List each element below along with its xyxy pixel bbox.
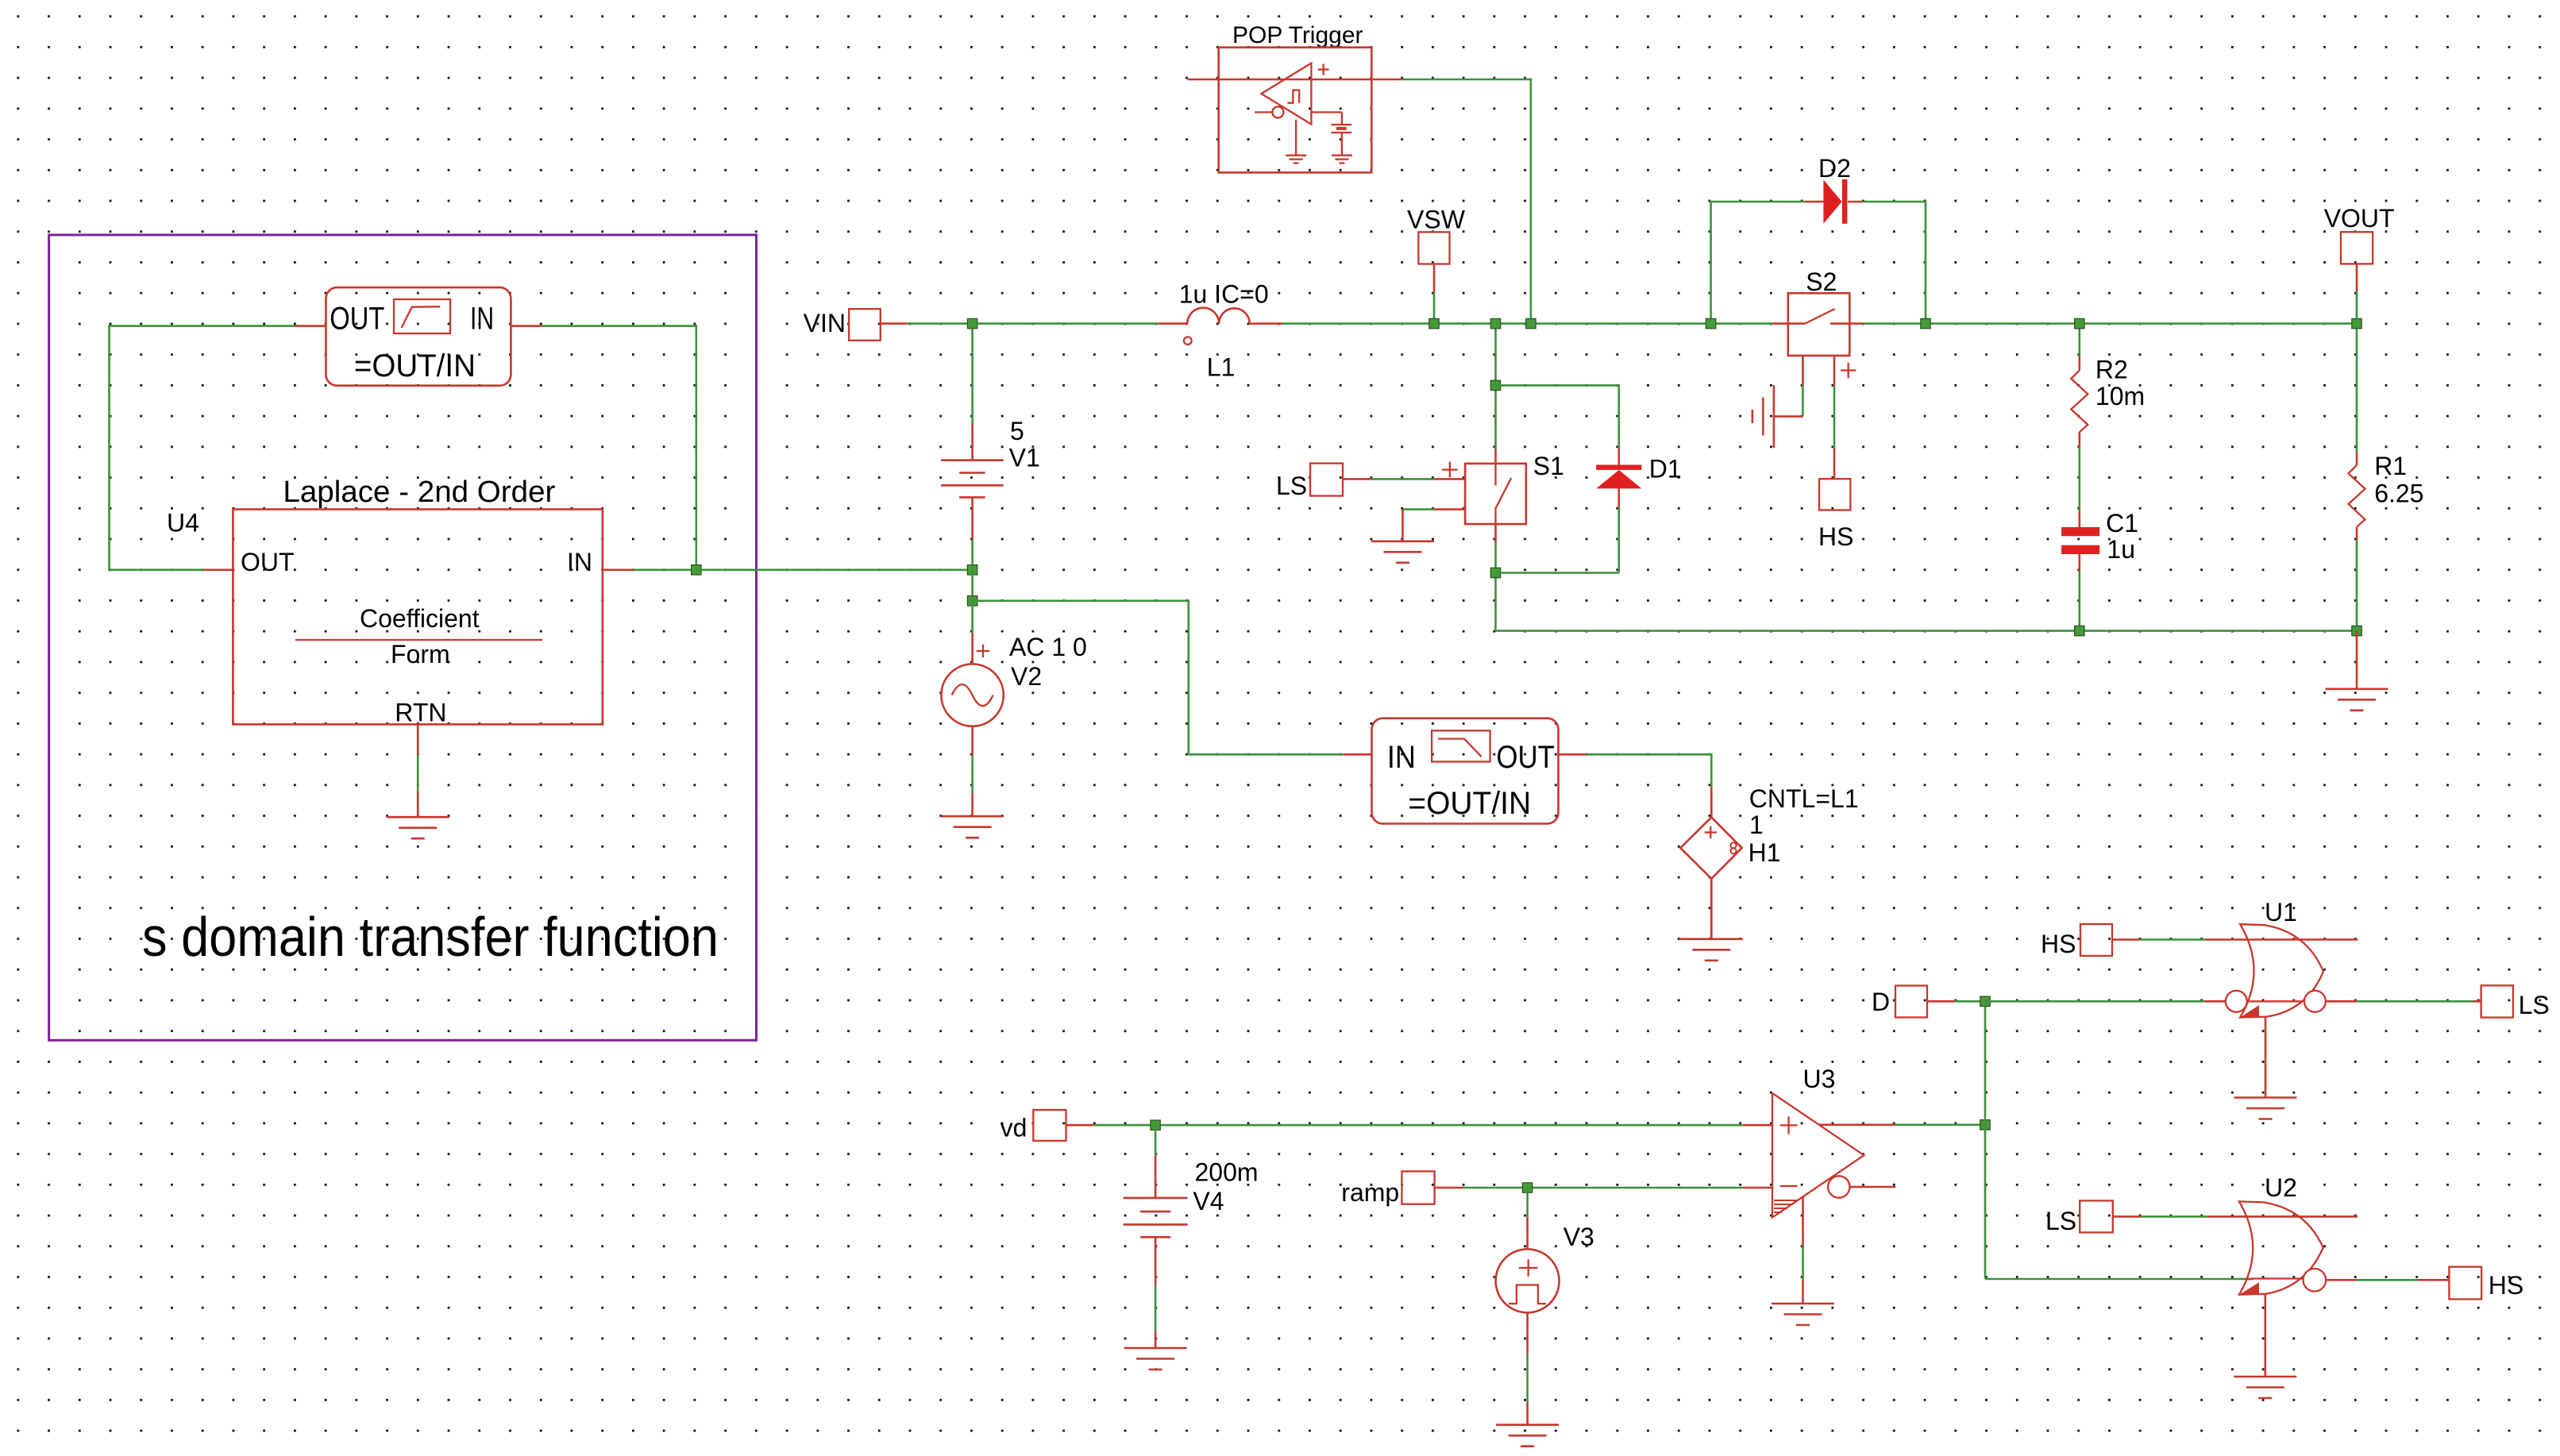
terminal LS (S1 control) (1276, 464, 1465, 500)
node: R2 top junction (2075, 318, 2084, 328)
wire: POP inverting input with bubble (1255, 106, 1283, 117)
gain block U5 (=OUT/IN upper) (326, 287, 511, 386)
svg-text:1u: 1u (2107, 535, 2135, 564)
wire: U3 output (1819, 1124, 1985, 1127)
svg-text:H1: H1 (1748, 838, 1781, 867)
comparator U3 (1772, 1065, 1895, 1218)
ground: S1 control (1371, 541, 1434, 563)
svg-text:5: 5 (1010, 417, 1024, 445)
terminal HS (U2 output) (2326, 1267, 2523, 1300)
switch S2 (1772, 268, 1863, 356)
terminal HS (S2 control) (1818, 356, 1856, 551)
terminal VOUT (2324, 204, 2395, 324)
laplace U4 box (167, 476, 603, 726)
node: V1 bottom junction (967, 565, 977, 575)
svg-text:D2: D2 (1818, 154, 1851, 183)
wire: S2 left stem to rotated ground (1774, 356, 1803, 417)
resistor R2 (2071, 324, 2145, 447)
wire: laplace RTN stem (417, 724, 419, 817)
wire: upper block IN to node (542, 325, 696, 570)
ground: output (2326, 689, 2388, 711)
source V1 battery (941, 324, 1040, 570)
node: S1 bottom junction (1490, 568, 1500, 577)
node: ramp junction (1522, 1183, 1532, 1192)
svg-text:S2: S2 (1806, 268, 1837, 296)
svg-text:D1: D1 (1649, 454, 1682, 483)
svg-text:LS: LS (2045, 1207, 2076, 1235)
svg-text:HS: HS (2489, 1271, 2523, 1300)
wire: S1 bottom stem (1494, 524, 1497, 631)
gain block U6 (=OUT/IN lower) (1372, 718, 1559, 824)
switch S1 (1442, 452, 1564, 524)
POP Trigger block (1219, 22, 1372, 173)
svg-text:VOUT: VOUT (2324, 204, 2395, 233)
node: V2 top junction (967, 596, 977, 606)
svg-text:vd: vd (1000, 1114, 1027, 1142)
svg-text:V2: V2 (1011, 662, 1042, 691)
svg-text:V1: V1 (1009, 444, 1040, 472)
svg-text:C1: C1 (2106, 509, 2138, 537)
svg-text:IN: IN (470, 302, 494, 337)
wire: U3 ground stem (1802, 1196, 1804, 1304)
inductor L1 (1158, 280, 1282, 382)
ground: V3 (1496, 1425, 1559, 1446)
wire: D to U1 lower input (1985, 1000, 2226, 1003)
wire: D node vertical (1985, 1001, 2253, 1279)
wire: bottom return bus (1496, 630, 2358, 632)
wire: feedback left vertical (108, 325, 110, 571)
svg-text:AC 1 0: AC 1 0 (1009, 633, 1087, 661)
svg-text:D: D (1872, 988, 1890, 1016)
svg-text:OUT: OUT (241, 548, 295, 576)
svg-text:s domain transfer function: s domain transfer function (142, 906, 719, 968)
wire: H1 ground stem (1710, 879, 1713, 939)
source V2 AC (941, 601, 1086, 816)
svg-text:Coefficient: Coefficient (360, 604, 480, 633)
ground: H1 (1680, 939, 1743, 961)
wire: laplace IN node to V1 bottom (696, 568, 973, 571)
svg-text:IN: IN (567, 548, 592, 576)
svg-text:1: 1 (1749, 811, 1764, 839)
ground: U2 (2234, 1377, 2296, 1398)
svg-text:=OUT/IN: =OUT/IN (1408, 786, 1531, 821)
svg-text:HS: HS (1818, 522, 1853, 551)
svg-text:ramp: ramp (1341, 1178, 1399, 1207)
svg-text:U3: U3 (1803, 1065, 1836, 1093)
node: VOUT junction (2352, 318, 2361, 328)
svg-text:RTN: RTN (395, 698, 446, 726)
purple boundary box (49, 235, 757, 1040)
wire: upper block left pin stub (295, 325, 326, 327)
svg-text:Laplace - 2nd Order: Laplace - 2nd Order (283, 476, 555, 509)
wire: ramp to U3 minus (1464, 1187, 1772, 1189)
svg-text:OUT: OUT (1496, 740, 1555, 775)
battery: POP reference (1332, 125, 1352, 156)
svg-text:V3: V3 (1563, 1223, 1594, 1251)
nor gate U1 (2205, 898, 2358, 1018)
ground: U3 (1772, 1304, 1834, 1325)
wire: U2 ground stem (2265, 1294, 2267, 1377)
node: R1 bottom junction (2352, 626, 2361, 635)
svg-text:10m: 10m (2095, 382, 2145, 410)
wire: laplace IN pin stub (603, 568, 696, 571)
svg-text:LS: LS (2519, 991, 2550, 1019)
svg-text:U2: U2 (2265, 1173, 2297, 1202)
ground: S2 (rotated) (1752, 385, 1774, 448)
svg-text:R2: R2 (2095, 355, 2128, 383)
svg-text:V4: V4 (1193, 1187, 1224, 1215)
wire: POP comparator ground stem (1295, 120, 1297, 156)
wire: POP comparator plus input line (1187, 79, 1401, 81)
terminal LS (U2 input) (2045, 1200, 2207, 1235)
svg-text:POP Trigger: POP Trigger (1232, 22, 1363, 48)
svg-text:R1: R1 (2374, 452, 2407, 480)
resistor R1 (2349, 324, 2424, 631)
capacitor C1 (2061, 447, 2138, 631)
svg-text:IN: IN (1387, 740, 1416, 775)
svg-text:OUT: OUT (330, 302, 384, 337)
ground: laplace RTN (387, 817, 449, 838)
wire: lower block OUT to H1 (1559, 753, 1712, 818)
wire: to Laplace OUT (110, 568, 233, 571)
ground: V2 (941, 816, 1004, 838)
op-amp: POP comparator (1261, 64, 1328, 125)
ground: POP comparator (1286, 156, 1306, 164)
svg-text:VIN: VIN (804, 309, 846, 337)
terminal VSW (1407, 206, 1466, 324)
terminal LS (U1 output) (2326, 985, 2550, 1019)
svg-text:6.25: 6.25 (2374, 479, 2423, 507)
node: U3 output junction (1980, 1120, 1990, 1130)
wire: vd to U3 plus (1094, 1124, 1772, 1127)
svg-text:Form: Form (391, 640, 450, 668)
svg-text:1u IC=0: 1u IC=0 (1179, 280, 1269, 309)
svg-text:U4: U4 (167, 509, 199, 537)
svg-text:LS: LS (1276, 472, 1307, 500)
source V3 pulse (1496, 1188, 1594, 1425)
wire: feedback left horizontal (110, 325, 295, 327)
wire: R1 ground stem (2356, 631, 2358, 689)
wire: V2 node to filter block IN (973, 599, 1372, 754)
ground: U1 (2234, 1098, 2297, 1119)
wire: S1 lower-left pin to ground (1403, 510, 1466, 541)
terminal VIN (804, 309, 908, 341)
wire: main bus VIN to L1 (908, 322, 1159, 325)
terminal ramp (1341, 1171, 1464, 1207)
wire: V1 bottom to V2 top (971, 570, 973, 601)
node: S1 upper junction (1490, 380, 1500, 390)
terminal HS (U1 input) (2041, 924, 2205, 958)
diode D2 (1710, 154, 1926, 324)
nor gate U2 (2207, 1173, 2358, 1295)
svg-text:=OUT/IN: =OUT/IN (354, 349, 476, 383)
wire: POP output to bus (1402, 79, 1531, 324)
node: C1 bottom junction (2075, 626, 2084, 635)
wire: upper block right pin stub (511, 325, 542, 327)
wire: main bus S2 to VOUT (1863, 322, 2357, 325)
svg-text:HS: HS (2041, 930, 2076, 958)
wire: U1 ground stem (2265, 1017, 2267, 1098)
diode D1 (1496, 384, 1682, 573)
node: bus junctions (967, 318, 1930, 328)
svg-text:U1: U1 (2265, 898, 2297, 926)
node: D junction (1980, 996, 1990, 1006)
svg-text:CNTL=L1: CNTL=L1 (1749, 784, 1859, 813)
wire: S1 top stem (1494, 324, 1497, 464)
svg-text:VSW: VSW (1407, 206, 1466, 234)
node: vd junction (1151, 1120, 1160, 1130)
source V4 battery (1124, 1125, 1259, 1348)
svg-text:S1: S1 (1533, 452, 1564, 480)
ground: POP battery (1332, 156, 1352, 164)
annotation: s domain transfer function (142, 906, 719, 968)
node: laplace IN junction (692, 565, 701, 575)
ground: V4 (1124, 1348, 1187, 1369)
wire: POP battery connection (1311, 112, 1342, 124)
svg-text:200m: 200m (1195, 1157, 1259, 1186)
svg-text:L1: L1 (1207, 353, 1236, 382)
terminal vd (1000, 1110, 1094, 1142)
source H1 CCVS diamond (1680, 784, 1858, 879)
terminal D (1872, 986, 1985, 1018)
wire: main bus L1 to S2 (1282, 322, 1773, 325)
